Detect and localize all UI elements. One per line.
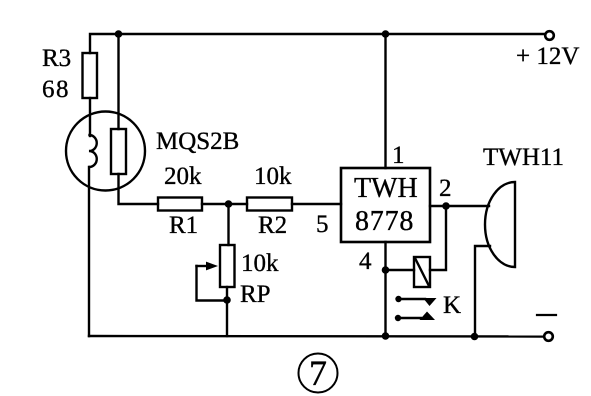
junction pin4/bottom rail: [382, 332, 390, 340]
svg-text:1: 1: [392, 142, 405, 169]
gas sensor MQS2B envelope: [66, 112, 145, 191]
heater coil inside MQS2B: [89, 135, 97, 167]
svg-text:MQS2B: MQS2B: [156, 128, 239, 155]
wire top rail to sensing resistor: [117, 34, 119, 129]
svg-text:20k: 20k: [164, 163, 202, 190]
relay contact lower: [395, 315, 401, 321]
svg-text:TWH: TWH: [354, 173, 418, 204]
wire heater to bottom rail: [88, 167, 90, 336]
speaker TWH11: [485, 182, 515, 267]
resistor R3: [83, 53, 98, 98]
junction node sensor/top rail: [115, 30, 123, 38]
wire RP wiper to bottom terminal: [197, 266, 228, 301]
wire top +12V rail: [90, 34, 545, 53]
junction speaker/bottom rail: [471, 333, 479, 341]
wire R1 to R2: [202, 203, 247, 205]
wire bottom rail: [89, 335, 544, 338]
wire pin 4 to bottom rail: [384, 242, 386, 336]
wire pin4 node to relay coil: [386, 269, 415, 271]
junction pin 2 node: [442, 202, 450, 210]
svg-text:8778: 8778: [355, 206, 414, 237]
wire R2 to pin 5: [292, 203, 341, 205]
wire pin 2 to speaker: [430, 205, 489, 207]
junction pin1/top rail: [382, 30, 390, 38]
resistor R2: [247, 198, 292, 211]
svg-text:2: 2: [439, 175, 452, 202]
svg-text:10k: 10k: [254, 163, 292, 190]
potentiometer RP body: [220, 245, 235, 287]
junction node R1/R2/RP: [225, 200, 233, 208]
junction pin4/relay coil: [382, 266, 390, 274]
wire relay coil to pin 2 node: [430, 206, 446, 270]
svg-text:RP: RP: [240, 281, 271, 308]
svg-text:TWH11: TWH11: [483, 144, 564, 171]
svg-text:7: 7: [309, 353, 327, 393]
svg-text:5: 5: [316, 211, 329, 238]
wire R3 to heater: [89, 98, 91, 136]
terminal negative supply: [544, 332, 553, 341]
wire sensing resistor to R1: [119, 174, 159, 204]
terminal +12V: [545, 31, 554, 40]
wire RP to bottom rail: [226, 287, 228, 336]
svg-text:68: 68: [42, 76, 70, 103]
svg-text:+ 12V: + 12V: [516, 43, 579, 70]
svg-text:K: K: [443, 292, 461, 319]
svg-text:10k: 10k: [241, 250, 279, 277]
relay coil K body: [414, 257, 430, 287]
potentiometer RP wiper arrow: [197, 265, 209, 267]
wire pin 1: [384, 34, 386, 168]
wire junction to RP: [227, 204, 229, 245]
sensing resistor inside MQS2B: [111, 129, 126, 174]
svg-text:R3: R3: [42, 45, 71, 72]
svg-text:R2: R2: [258, 212, 287, 239]
relay contact upper: [395, 296, 401, 302]
wire speaker to bottom rail: [475, 246, 490, 337]
label minus sign: [537, 314, 556, 316]
IC U1 TWH8778 body: [341, 168, 430, 242]
junction RP wiper/bottom: [223, 296, 231, 304]
svg-text:4: 4: [359, 248, 372, 275]
svg-text:R1: R1: [169, 212, 198, 239]
figure number 7 circle: [299, 354, 338, 393]
resistor R1: [158, 198, 202, 211]
